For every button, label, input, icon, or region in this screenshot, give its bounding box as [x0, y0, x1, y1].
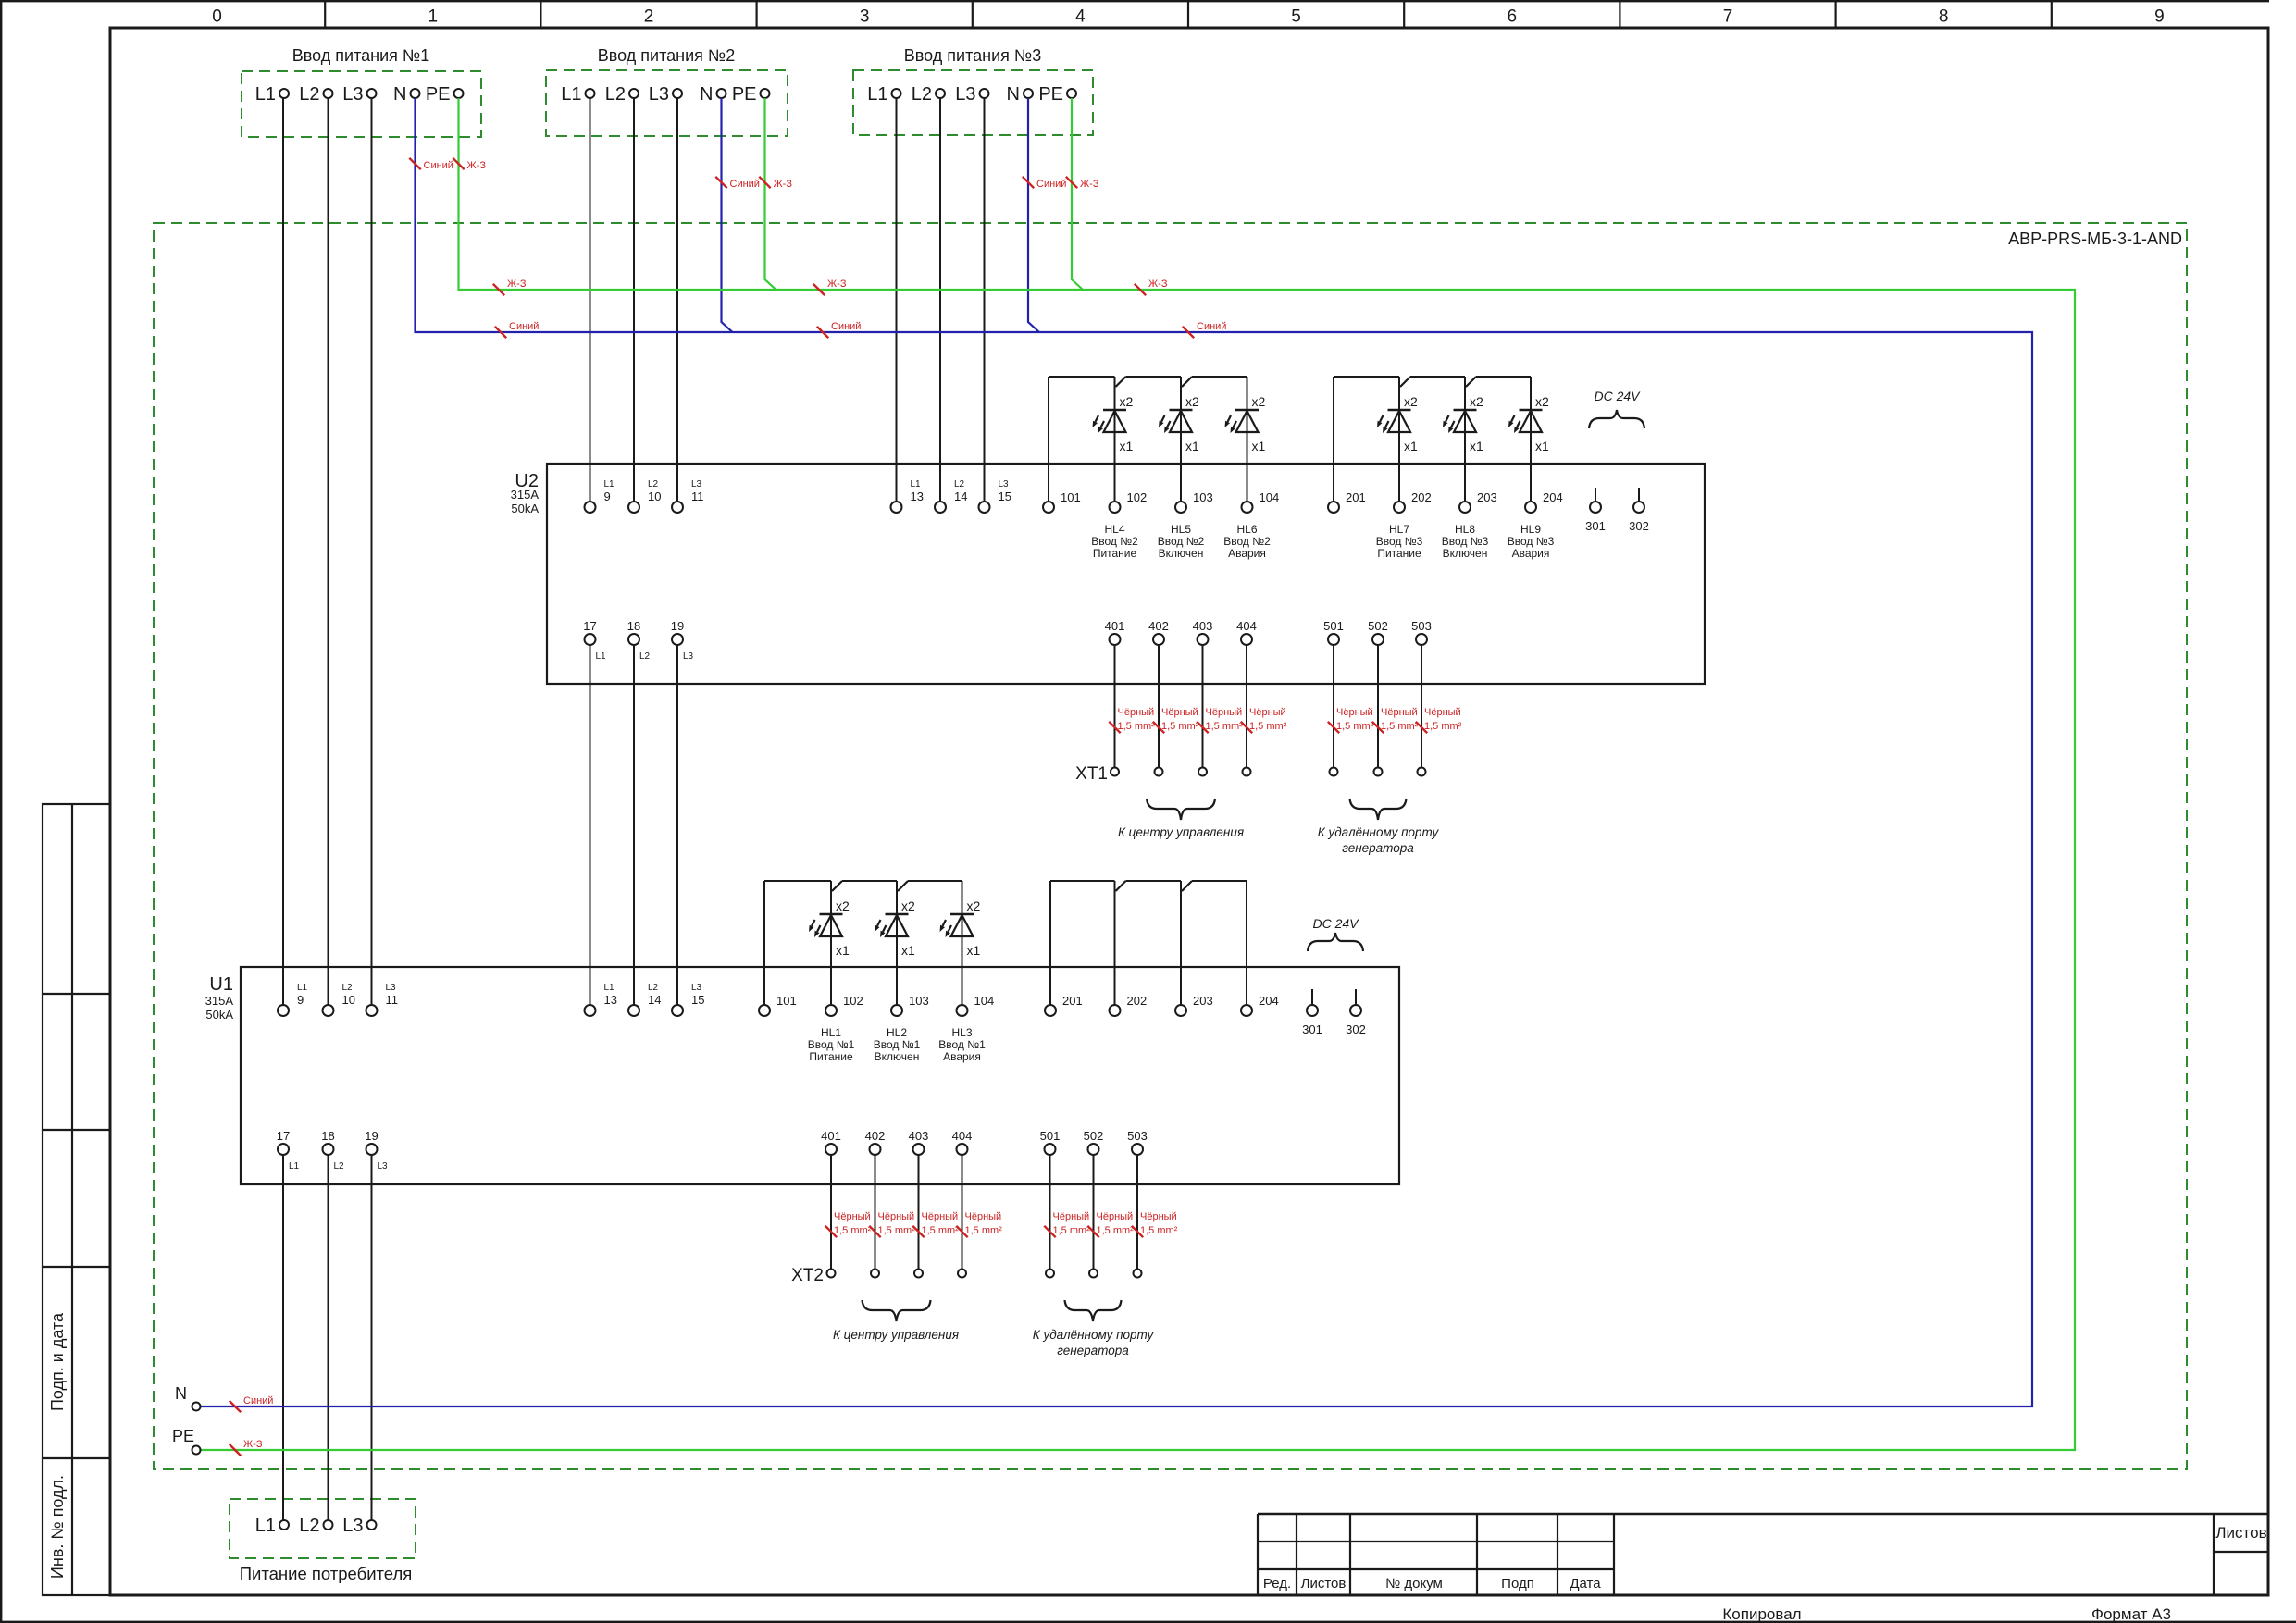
svg-text:Ввод питания №2: Ввод питания №2 [598, 46, 735, 65]
svg-text:Авария: Авария [1512, 547, 1550, 560]
svg-text:302: 302 [1629, 519, 1649, 533]
svg-text:L1: L1 [255, 1516, 276, 1536]
svg-text:19: 19 [365, 1129, 378, 1143]
svg-text:N: N [393, 84, 406, 105]
svg-text:Ввод №3: Ввод №3 [1442, 535, 1489, 548]
svg-text:L1: L1 [911, 479, 922, 489]
svg-text:x1: x1 [1404, 439, 1418, 453]
svg-text:L1: L1 [289, 1161, 300, 1171]
svg-text:Ж-З: Ж-З [507, 279, 527, 290]
svg-text:HL4: HL4 [1104, 523, 1124, 536]
svg-text:Включен: Включен [1443, 547, 1488, 560]
svg-text:1: 1 [428, 7, 439, 27]
svg-text:Ж-З: Ж-З [243, 1439, 263, 1450]
svg-text:11: 11 [386, 993, 399, 1007]
svg-text:L2: L2 [954, 479, 965, 489]
svg-text:x1: x1 [1120, 439, 1134, 453]
svg-text:HL9: HL9 [1520, 523, 1541, 536]
svg-text:Синий: Синий [730, 179, 760, 190]
svg-text:50kA: 50kA [205, 1008, 233, 1022]
svg-text:L2: L2 [342, 983, 354, 993]
svg-text:HL8: HL8 [1455, 523, 1475, 536]
svg-text:201: 201 [1062, 994, 1083, 1008]
svg-text:501: 501 [1040, 1129, 1061, 1143]
svg-text:402: 402 [865, 1129, 886, 1143]
svg-text:Авария: Авария [1228, 547, 1266, 560]
svg-text:103: 103 [909, 994, 929, 1008]
svg-text:PE: PE [732, 84, 757, 105]
svg-text:Копировал: Копировал [1722, 1605, 1801, 1623]
svg-text:104: 104 [1260, 490, 1280, 504]
svg-text:x2: x2 [967, 898, 981, 913]
svg-text:10: 10 [342, 993, 355, 1007]
svg-text:1,5 mm²: 1,5 mm² [1206, 721, 1244, 732]
svg-text:Чёрный: Чёрный [878, 1211, 915, 1222]
svg-text:L3: L3 [342, 1516, 363, 1536]
svg-text:x2: x2 [1470, 394, 1483, 409]
svg-text:генератора: генератора [1057, 1344, 1129, 1357]
svg-text:315A: 315A [511, 488, 540, 502]
svg-text:3: 3 [860, 7, 870, 27]
svg-text:HL3: HL3 [951, 1026, 972, 1039]
svg-text:201: 201 [1346, 490, 1366, 504]
svg-text:PE: PE [1038, 84, 1063, 105]
svg-text:1,5 mm²: 1,5 mm² [1140, 1225, 1178, 1236]
svg-text:L3: L3 [342, 84, 363, 105]
svg-text:Включен: Включен [875, 1050, 920, 1063]
svg-text:XT2: XT2 [791, 1266, 824, 1285]
svg-text:XT1: XT1 [1075, 764, 1108, 784]
svg-text:Ввод №3: Ввод №3 [1508, 535, 1555, 548]
svg-text:1,5 mm²: 1,5 mm² [965, 1225, 1003, 1236]
svg-text:№ докум: № докум [1385, 1576, 1443, 1592]
svg-text:102: 102 [843, 994, 863, 1008]
svg-text:Синий: Синий [1036, 179, 1066, 190]
svg-text:404: 404 [1236, 619, 1257, 633]
svg-text:Ввод №2: Ввод №2 [1158, 535, 1205, 548]
svg-text:x2: x2 [836, 898, 850, 913]
svg-text:204: 204 [1543, 490, 1563, 504]
svg-text:Чёрный: Чёрный [965, 1211, 1002, 1222]
svg-text:Ред.: Ред. [1263, 1576, 1291, 1592]
svg-text:202: 202 [1411, 490, 1432, 504]
svg-text:L3: L3 [649, 84, 669, 105]
svg-text:15: 15 [999, 489, 1011, 503]
svg-text:L3: L3 [691, 983, 702, 993]
svg-text:Ж-З: Ж-З [774, 179, 793, 190]
svg-text:Синий: Синий [509, 321, 539, 332]
svg-text:101: 101 [776, 994, 797, 1008]
svg-text:10: 10 [648, 489, 661, 503]
svg-text:N: N [175, 1384, 187, 1403]
svg-text:Подп. и дата: Подп. и дата [48, 1312, 67, 1411]
svg-text:19: 19 [671, 619, 684, 633]
svg-text:104: 104 [974, 994, 995, 1008]
svg-text:502: 502 [1368, 619, 1388, 633]
svg-text:L1: L1 [596, 651, 607, 662]
svg-text:L2: L2 [605, 84, 626, 105]
svg-text:К удалённому порту: К удалённому порту [1033, 1328, 1155, 1342]
svg-text:4: 4 [1075, 7, 1086, 27]
svg-text:301: 301 [1585, 519, 1606, 533]
svg-text:103: 103 [1193, 490, 1213, 504]
svg-text:x2: x2 [1252, 394, 1266, 409]
svg-text:1,5 mm²: 1,5 mm² [878, 1225, 916, 1236]
svg-text:Синий: Синий [831, 321, 861, 332]
svg-text:HL7: HL7 [1389, 523, 1409, 536]
svg-text:6: 6 [1508, 7, 1518, 27]
svg-text:HL6: HL6 [1236, 523, 1257, 536]
svg-text:N: N [700, 84, 713, 105]
svg-text:L3: L3 [378, 1161, 389, 1171]
svg-text:18: 18 [627, 619, 640, 633]
svg-text:L1: L1 [867, 84, 887, 105]
svg-text:1,5 mm²: 1,5 mm² [1249, 721, 1287, 732]
svg-text:Ввод №3: Ввод №3 [1376, 535, 1423, 548]
svg-text:15: 15 [691, 993, 704, 1007]
svg-text:L3: L3 [386, 983, 397, 993]
svg-text:L1: L1 [297, 983, 308, 993]
svg-text:1,5 mm²: 1,5 mm² [1336, 721, 1374, 732]
svg-text:Ввод №1: Ввод №1 [808, 1038, 855, 1051]
svg-text:18: 18 [321, 1129, 334, 1143]
svg-text:DC 24V: DC 24V [1594, 389, 1641, 403]
svg-text:50kA: 50kA [511, 502, 539, 515]
svg-text:7: 7 [1723, 7, 1733, 27]
svg-text:Питание потребителя: Питание потребителя [240, 1564, 413, 1583]
svg-text:11: 11 [691, 489, 704, 503]
svg-text:403: 403 [909, 1129, 929, 1143]
svg-text:L2: L2 [639, 651, 651, 662]
svg-text:401: 401 [821, 1129, 841, 1143]
svg-text:1,5 mm²: 1,5 mm² [1161, 721, 1199, 732]
svg-text:1,5 mm²: 1,5 mm² [922, 1225, 960, 1236]
svg-text:1,5 mm²: 1,5 mm² [1053, 1225, 1091, 1236]
svg-text:Ж-З: Ж-З [467, 160, 487, 171]
svg-text:403: 403 [1193, 619, 1213, 633]
svg-text:x1: x1 [1252, 439, 1266, 453]
svg-text:Ввод №1: Ввод №1 [938, 1038, 986, 1051]
svg-text:502: 502 [1084, 1129, 1104, 1143]
svg-text:501: 501 [1323, 619, 1344, 633]
svg-text:PE: PE [172, 1427, 194, 1445]
svg-text:Чёрный: Чёрный [1161, 707, 1198, 718]
svg-text:202: 202 [1127, 994, 1148, 1008]
svg-text:203: 203 [1193, 994, 1213, 1008]
svg-text:x1: x1 [901, 943, 915, 958]
svg-text:Чёрный: Чёрный [1140, 1211, 1177, 1222]
svg-text:Чёрный: Чёрный [1206, 707, 1243, 718]
svg-text:PE: PE [426, 84, 451, 105]
svg-text:x1: x1 [836, 943, 850, 958]
svg-text:Чёрный: Чёрный [1381, 707, 1418, 718]
svg-text:генератора: генератора [1342, 841, 1414, 855]
svg-text:HL1: HL1 [821, 1026, 841, 1039]
svg-text:2: 2 [644, 7, 654, 27]
svg-text:L3: L3 [691, 479, 702, 489]
svg-text:101: 101 [1061, 490, 1081, 504]
svg-text:L2: L2 [648, 479, 659, 489]
svg-text:9: 9 [2154, 7, 2165, 27]
svg-text:1,5 mm²: 1,5 mm² [1424, 721, 1462, 732]
svg-text:Инв. № подл.: Инв. № подл. [48, 1475, 67, 1579]
svg-text:Чёрный: Чёрный [1118, 707, 1155, 718]
svg-text:17: 17 [583, 619, 596, 633]
svg-text:Ж-З: Ж-З [1148, 279, 1168, 290]
svg-text:1,5 mm²: 1,5 mm² [1097, 1225, 1135, 1236]
svg-text:Питание: Питание [809, 1050, 853, 1063]
svg-text:8: 8 [1939, 7, 1949, 27]
svg-text:13: 13 [911, 489, 924, 503]
svg-text:Ввод №1: Ввод №1 [874, 1038, 921, 1051]
svg-text:301: 301 [1302, 1022, 1322, 1036]
svg-text:14: 14 [954, 489, 967, 503]
svg-text:L2: L2 [299, 1516, 319, 1536]
svg-text:L1: L1 [561, 84, 581, 105]
svg-text:0: 0 [212, 7, 222, 27]
svg-text:Чёрный: Чёрный [922, 1211, 959, 1222]
svg-text:N: N [1007, 84, 1020, 105]
svg-text:АВР-PRS-МБ-3-1-AND: АВР-PRS-МБ-3-1-AND [2008, 229, 2182, 248]
svg-text:9: 9 [604, 489, 611, 503]
svg-text:x2: x2 [1185, 394, 1199, 409]
svg-text:Чёрный: Чёрный [1424, 707, 1461, 718]
svg-text:L3: L3 [999, 479, 1010, 489]
svg-text:503: 503 [1411, 619, 1432, 633]
svg-text:x2: x2 [1120, 394, 1134, 409]
svg-text:Чёрный: Чёрный [1249, 707, 1286, 718]
svg-text:203: 203 [1477, 490, 1497, 504]
svg-text:К удалённому порту: К удалённому порту [1318, 825, 1440, 839]
svg-text:Формат А3: Формат А3 [2091, 1605, 2171, 1623]
svg-text:Синий: Синий [1197, 321, 1226, 332]
svg-text:L3: L3 [955, 84, 975, 105]
svg-text:Ввод питания №1: Ввод питания №1 [292, 46, 429, 65]
svg-text:102: 102 [1127, 490, 1148, 504]
svg-text:Авария: Авария [943, 1050, 981, 1063]
svg-text:x2: x2 [901, 898, 915, 913]
svg-text:Ж-З: Ж-З [1080, 179, 1099, 190]
svg-text:404: 404 [952, 1129, 973, 1143]
svg-text:Подп: Подп [1501, 1576, 1534, 1592]
svg-text:L3: L3 [683, 651, 694, 662]
svg-text:Питание: Питание [1377, 547, 1421, 560]
svg-text:Синий: Синий [424, 160, 453, 171]
svg-text:x2: x2 [1535, 394, 1549, 409]
svg-text:HL2: HL2 [887, 1026, 907, 1039]
svg-text:302: 302 [1346, 1022, 1366, 1036]
svg-text:Ж-З: Ж-З [827, 279, 847, 290]
svg-text:Питание: Питание [1093, 547, 1137, 560]
svg-text:HL5: HL5 [1171, 523, 1191, 536]
svg-text:401: 401 [1105, 619, 1125, 633]
svg-text:1,5 mm²: 1,5 mm² [834, 1225, 872, 1236]
svg-text:DC 24V: DC 24V [1312, 916, 1359, 931]
svg-text:Листов: Листов [2215, 1524, 2266, 1542]
svg-text:5: 5 [1291, 7, 1301, 27]
svg-text:Синий: Синий [243, 1395, 273, 1406]
svg-text:Ввод питания №3: Ввод питания №3 [904, 46, 1041, 65]
svg-text:К центру управления: К центру управления [833, 1328, 959, 1342]
svg-text:402: 402 [1148, 619, 1169, 633]
svg-text:204: 204 [1259, 994, 1279, 1008]
svg-text:К центру управления: К центру управления [1118, 825, 1244, 839]
svg-text:Включен: Включен [1159, 547, 1204, 560]
svg-text:Чёрный: Чёрный [834, 1211, 871, 1222]
svg-text:1,5 mm²: 1,5 mm² [1118, 721, 1156, 732]
svg-text:x1: x1 [1470, 439, 1483, 453]
svg-text:L1: L1 [604, 983, 615, 993]
svg-text:Листов: Листов [1301, 1576, 1347, 1592]
svg-text:9: 9 [297, 993, 304, 1007]
svg-text:x1: x1 [1535, 439, 1549, 453]
svg-text:Ввод №2: Ввод №2 [1091, 535, 1138, 548]
svg-text:13: 13 [604, 993, 617, 1007]
svg-text:Чёрный: Чёрный [1336, 707, 1373, 718]
svg-text:L2: L2 [912, 84, 932, 105]
svg-text:503: 503 [1127, 1129, 1148, 1143]
svg-text:L2: L2 [299, 84, 319, 105]
svg-text:L2: L2 [334, 1161, 345, 1171]
svg-text:17: 17 [277, 1129, 290, 1143]
svg-text:L2: L2 [648, 983, 659, 993]
svg-text:x1: x1 [967, 943, 981, 958]
svg-text:Чёрный: Чёрный [1097, 1211, 1134, 1222]
svg-text:Чёрный: Чёрный [1053, 1211, 1090, 1222]
svg-text:14: 14 [648, 993, 661, 1007]
svg-text:L1: L1 [255, 84, 276, 105]
svg-text:x2: x2 [1404, 394, 1418, 409]
svg-text:1,5 mm²: 1,5 mm² [1381, 721, 1419, 732]
svg-text:x1: x1 [1185, 439, 1199, 453]
svg-text:Дата: Дата [1570, 1576, 1601, 1592]
svg-text:L1: L1 [604, 479, 615, 489]
svg-text:U1: U1 [209, 974, 233, 995]
svg-text:Ввод №2: Ввод №2 [1223, 535, 1271, 548]
svg-text:315A: 315A [205, 994, 234, 1008]
